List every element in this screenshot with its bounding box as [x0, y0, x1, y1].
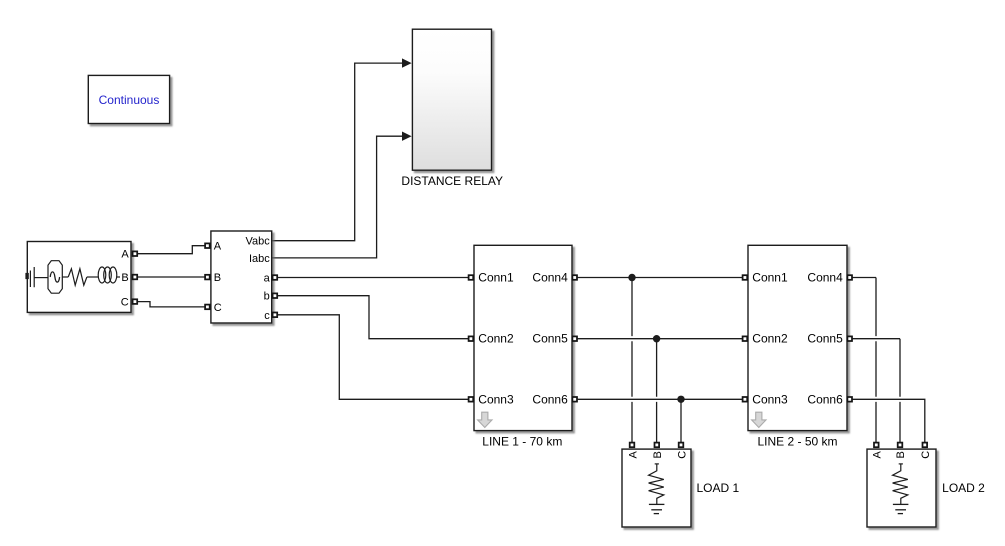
port Conn1 square — [469, 275, 474, 280]
port Conn4 square — [572, 275, 577, 280]
wire source A to measurement A — [138, 246, 205, 254]
svg-text:C: C — [676, 451, 688, 459]
port a square — [273, 275, 278, 280]
load icon top tick — [655, 463, 659, 465]
wire LINE2 Conn4 to LOAD2 A (gaps at crossings) — [853, 278, 877, 443]
source icon resistor zigzag — [68, 269, 87, 285]
wire LINE1 Conn5 to LINE2 Conn2 — [578, 338, 742, 340]
load icon ground bar 3 — [654, 513, 659, 515]
wire Iabc to relay input 2 — [272, 136, 403, 258]
arrowhead relay input 1 — [402, 58, 412, 67]
port C square — [133, 299, 138, 304]
port C square — [923, 443, 928, 448]
gray down arrow icon — [752, 412, 766, 427]
junction dot row2 — [653, 335, 660, 342]
port C square — [205, 305, 210, 310]
load icon resistor zigzag — [649, 464, 664, 505]
svg-text:Conn3: Conn3 — [478, 392, 514, 406]
three-phase source block — [25, 242, 137, 313]
port A square — [133, 251, 138, 256]
svg-text:Continuous: Continuous — [99, 93, 160, 107]
wire LINE1 Conn6 to LINE2 Conn3 — [578, 398, 742, 400]
svg-text:Conn6: Conn6 — [532, 392, 568, 406]
svg-text:b: b — [264, 291, 270, 303]
svg-text:Conn4: Conn4 — [532, 271, 568, 285]
load icon top tick — [899, 463, 903, 465]
wire Vabc to relay input 1 — [272, 63, 403, 241]
wire drop to LOAD1 C — [680, 399, 682, 442]
svg-text:B: B — [121, 272, 128, 284]
junction dot row3 — [677, 396, 684, 403]
wire drop to LOAD1 A (gaps at crossings) — [631, 278, 633, 443]
port B square — [655, 443, 660, 448]
port Conn6 square — [572, 397, 577, 402]
svg-text:C: C — [121, 296, 129, 308]
port C square — [679, 443, 684, 448]
port Conn5 square — [572, 336, 577, 341]
wire c to LINE1 Conn3 — [278, 315, 468, 400]
source icon AC octagon — [48, 261, 62, 294]
svg-text:B: B — [214, 272, 221, 284]
svg-text:A: A — [627, 450, 639, 458]
arrowhead relay input 2 — [402, 132, 412, 141]
wire source B to measurement B — [138, 276, 205, 278]
wire a to LINE1 Conn1 — [278, 277, 468, 279]
source icon lead resistor-inductor — [87, 276, 98, 278]
svg-text:LINE 1 - 70 km: LINE 1 - 70 km — [482, 435, 562, 449]
wire source C to measurement C — [138, 302, 205, 307]
load icon ground bar 2 — [895, 509, 906, 511]
port Conn5 square — [847, 336, 852, 341]
svg-text:C: C — [214, 302, 222, 314]
port Conn1 square — [743, 275, 748, 280]
port c square — [273, 313, 278, 318]
source icon lead inductor-port — [117, 276, 120, 278]
wire LINE2 Conn5 to LOAD2 B — [853, 339, 901, 443]
port Conn2 square — [743, 336, 748, 341]
svg-text:Conn1: Conn1 — [478, 271, 514, 285]
junction dot row1 — [628, 274, 635, 281]
svg-text:Iabc: Iabc — [249, 253, 270, 265]
source icon lead to circle — [34, 277, 48, 279]
wire drop to LOAD1 B — [656, 339, 658, 443]
svg-text:Conn3: Conn3 — [752, 392, 788, 406]
load icon ground bar 1 — [649, 503, 665, 505]
LINE 1 block — [469, 245, 577, 448]
svg-text:Conn5: Conn5 — [532, 332, 568, 346]
svg-text:B: B — [652, 451, 664, 458]
port A square — [874, 443, 879, 448]
svg-text:A: A — [214, 241, 222, 253]
svg-text:Conn5: Conn5 — [807, 332, 843, 346]
svg-text:Conn2: Conn2 — [752, 332, 788, 346]
LOAD 2 block — [867, 443, 985, 527]
powergui block (Continuous) — [88, 75, 169, 123]
svg-text:DISTANCE RELAY: DISTANCE RELAY — [401, 174, 503, 188]
port B square — [898, 443, 903, 448]
source icon battery bars — [30, 267, 34, 287]
port B square — [133, 275, 138, 280]
load icon resistor zigzag — [893, 464, 908, 505]
gray down arrow icon — [478, 412, 492, 427]
port Conn3 square — [469, 397, 474, 402]
port Conn2 square — [469, 336, 474, 341]
svg-text:Vabc: Vabc — [246, 236, 271, 248]
port A square — [630, 443, 635, 448]
svg-text:Conn2: Conn2 — [478, 332, 514, 346]
port A square — [205, 243, 210, 248]
wire LINE1 Conn4 to LINE2 Conn1 — [578, 277, 742, 279]
svg-text:LOAD 2: LOAD 2 — [942, 481, 985, 495]
three-phase V-I measurement block — [205, 231, 277, 323]
wire LINE2 Conn6 to LOAD2 C — [853, 399, 925, 442]
svg-text:A: A — [872, 450, 884, 458]
svg-text:LOAD 1: LOAD 1 — [696, 481, 739, 495]
port B square — [205, 275, 210, 280]
neutral tick on left edge — [25, 273, 28, 279]
source icon sine wave — [50, 272, 59, 282]
LINE 2 block — [743, 245, 852, 448]
svg-text:Conn4: Conn4 — [807, 271, 843, 285]
svg-text:Conn1: Conn1 — [752, 271, 788, 285]
svg-text:B: B — [895, 451, 907, 458]
svg-text:LINE 2 - 50 km: LINE 2 - 50 km — [757, 435, 837, 449]
port Conn3 square — [743, 397, 748, 402]
port Conn4 square — [847, 275, 852, 280]
port Conn6 square — [847, 397, 852, 402]
load icon ground bar 3 — [898, 513, 903, 515]
svg-text:a: a — [264, 273, 271, 285]
DISTANCE RELAY block — [401, 29, 503, 188]
svg-text:c: c — [264, 310, 270, 322]
source icon inductor coils — [98, 267, 106, 283]
svg-text:Conn6: Conn6 — [807, 392, 843, 406]
svg-text:A: A — [121, 249, 129, 261]
LOAD 1 block — [622, 443, 739, 527]
source icon lead circle-resistor — [62, 276, 68, 278]
svg-text:C: C — [920, 451, 932, 459]
port b square — [273, 293, 278, 298]
load icon ground bar 2 — [651, 509, 662, 511]
load icon ground bar 1 — [893, 503, 909, 505]
wire b to LINE1 Conn2 — [278, 296, 468, 339]
